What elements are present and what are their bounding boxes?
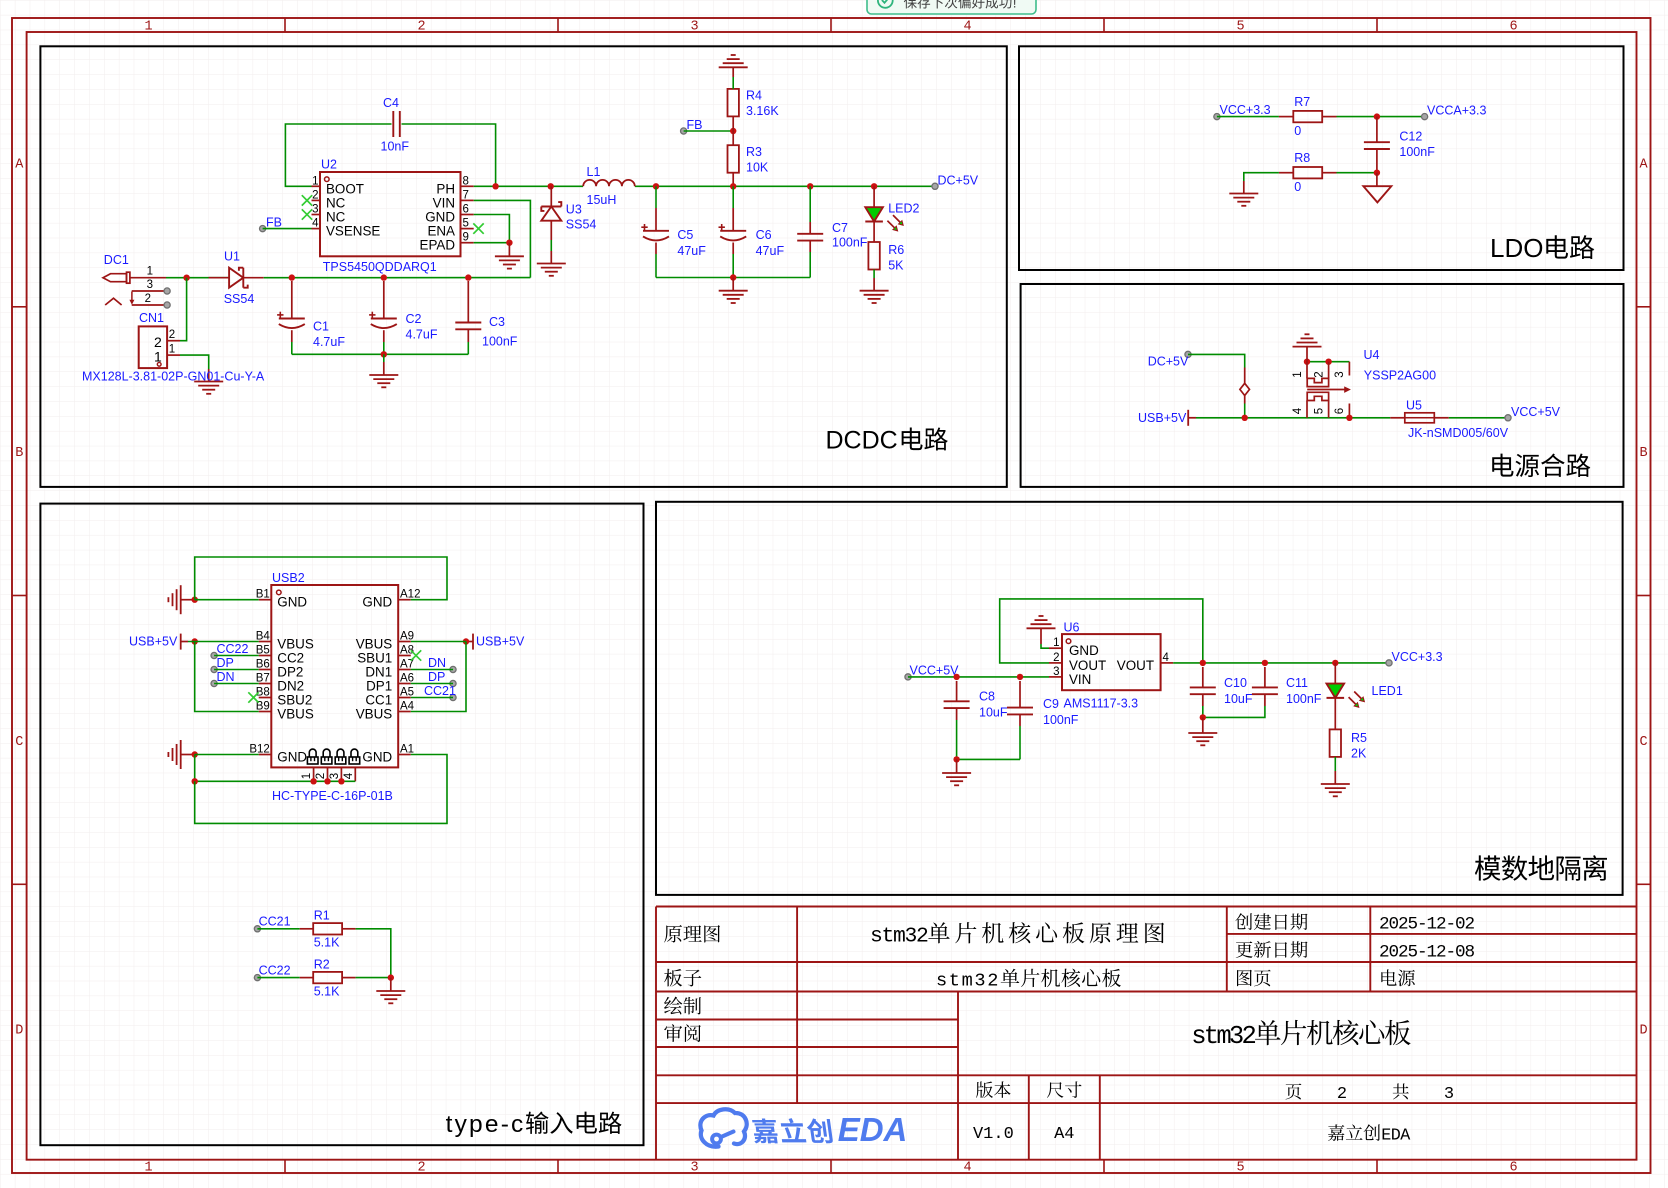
- resistor R4 3.16K: [728, 89, 739, 117]
- svg-text:2: 2: [916, 925, 929, 949]
- svg-text:!: !: [1013, 0, 1017, 10]
- svg-text:3: 3: [690, 20, 698, 35]
- node C8 gnd junction: [953, 756, 959, 762]
- svg-text:GND: GND: [277, 750, 307, 765]
- svg-text:3: 3: [1334, 371, 1346, 377]
- svg-text:2: 2: [1465, 915, 1476, 935]
- svg-text:C2: C2: [406, 312, 422, 326]
- node B12 junction: [192, 751, 198, 757]
- ground (U3): [537, 263, 566, 265]
- net label VCC+3.3: [1214, 114, 1220, 120]
- USB2 left pins: [259, 599, 272, 601]
- svg-text:5: 5: [463, 218, 469, 230]
- svg-text:R7: R7: [1294, 95, 1310, 109]
- capacitor C1 4.7uF: [291, 281, 293, 319]
- svg-text:C1: C1: [313, 320, 329, 334]
- svg-text:D: D: [1639, 1024, 1647, 1039]
- U2 TPS5450 box: [320, 172, 461, 256]
- wire GND pin: [474, 215, 510, 243]
- svg-text:DC+5V: DC+5V: [938, 174, 979, 188]
- capacitor C9 100nF: [1019, 681, 1021, 708]
- capacitor C4: [392, 111, 394, 137]
- node U4 pin2: [1325, 359, 1331, 365]
- svg-text:2: 2: [145, 293, 151, 305]
- svg-text:A: A: [15, 158, 24, 173]
- svg-text:1: 1: [1053, 637, 1059, 649]
- svg-text:5: 5: [1236, 1161, 1244, 1176]
- node C6/R3 junction: [730, 183, 736, 189]
- svg-text:100nF: 100nF: [482, 334, 518, 348]
- analog-gnd section box: [656, 502, 1623, 895]
- svg-text:VOUT: VOUT: [1069, 658, 1106, 673]
- node LED2 junction: [871, 183, 877, 189]
- net label VCC+5V (merge): [1505, 415, 1511, 421]
- diode U3 SS54: [550, 186, 552, 206]
- svg-text:SBU1: SBU1: [357, 651, 392, 666]
- svg-text:HC-TYPE-C-16P-01B: HC-TYPE-C-16P-01B: [272, 789, 393, 803]
- ground (R8): [1229, 193, 1258, 195]
- svg-text:8: 8: [463, 175, 469, 187]
- svg-text:2: 2: [1337, 1085, 1347, 1104]
- shield wire: [195, 780, 356, 782]
- svg-text:t: t: [949, 971, 960, 992]
- svg-text:6: 6: [1509, 1161, 1517, 1176]
- node C8 junction: [953, 674, 959, 680]
- node: C4->rail junction: [492, 183, 498, 189]
- LED2: [873, 186, 875, 207]
- svg-text:GND: GND: [362, 595, 392, 610]
- svg-text:0: 0: [1294, 124, 1301, 138]
- svg-text:C9: C9: [1043, 697, 1059, 711]
- svg-text:LDO: LDO: [1490, 233, 1543, 263]
- svg-text:5: 5: [1313, 408, 1325, 414]
- resistor R8 0: [1293, 167, 1322, 178]
- svg-text:VIN: VIN: [433, 195, 455, 210]
- svg-text:10K: 10K: [746, 161, 769, 175]
- svg-text:5.1K: 5.1K: [314, 984, 340, 998]
- net label DN (right): [450, 666, 456, 672]
- svg-text:s: s: [936, 971, 947, 992]
- svg-text:R8: R8: [1294, 151, 1310, 165]
- svg-text:R1: R1: [314, 909, 330, 923]
- svg-text:1: 1: [144, 20, 152, 35]
- svg-text:VIN: VIN: [1069, 672, 1091, 687]
- ground (C1-C3): [369, 374, 398, 376]
- svg-text:10nF: 10nF: [381, 140, 410, 154]
- svg-text:PH: PH: [436, 181, 455, 196]
- svg-text:2: 2: [987, 971, 998, 992]
- svg-text:E: E: [1381, 1127, 1391, 1146]
- capacitor C7 100nF: [809, 186, 811, 222]
- svg-text:2: 2: [417, 1161, 425, 1176]
- svg-text:D: D: [15, 1024, 23, 1039]
- node LED1 junction: [1332, 660, 1338, 666]
- svg-text:C4: C4: [383, 96, 399, 110]
- svg-text:4: 4: [1163, 652, 1170, 664]
- capacitor C12 100nF: [1376, 117, 1378, 143]
- resistor R2 5.1K: [300, 977, 314, 979]
- capacitor C6 47uF: [732, 186, 734, 208]
- node CN1 junction: [183, 275, 189, 281]
- caps C1-C3 bottom rail: [292, 353, 469, 355]
- svg-text:A: A: [1639, 158, 1648, 173]
- left VBUS loop to B9: [195, 642, 259, 712]
- node shield3: [338, 778, 344, 784]
- svg-text:3: 3: [147, 279, 153, 291]
- svg-text:R5: R5: [1351, 731, 1367, 745]
- svg-text:GND: GND: [425, 210, 455, 225]
- svg-text:L1: L1: [587, 165, 601, 179]
- node R8/C12 junction: [1374, 170, 1380, 176]
- svg-text:VSENSE: VSENSE: [326, 224, 380, 239]
- node: U3 junction: [548, 183, 554, 189]
- svg-text:0: 0: [1294, 180, 1301, 194]
- svg-text:DP: DP: [217, 656, 234, 670]
- svg-text:FB: FB: [687, 118, 703, 132]
- JLCEDA logo: [700, 1109, 746, 1146]
- svg-text:DCDC: DCDC: [826, 427, 898, 455]
- no-connect X pins 2,3,5: [302, 195, 312, 205]
- net label DP (left): [211, 666, 217, 672]
- DC1 pin2 + switch: [132, 304, 166, 306]
- capacitor C5 47uF: [655, 186, 657, 208]
- svg-text:4: 4: [1292, 407, 1304, 414]
- svg-text:47uF: 47uF: [677, 244, 706, 258]
- svg-text:B: B: [1639, 446, 1647, 461]
- svg-text:7: 7: [463, 189, 469, 201]
- U6 VOUT loop pin2: [1000, 599, 1203, 663]
- ground (CN1): [194, 381, 223, 383]
- svg-text:EDA: EDA: [838, 1111, 908, 1148]
- svg-text:USB+5V: USB+5V: [1138, 411, 1187, 425]
- node C7 junction: [807, 183, 813, 189]
- svg-text:U2: U2: [321, 158, 337, 172]
- svg-text:100nF: 100nF: [1399, 145, 1435, 159]
- top loop wire to A12: [195, 557, 447, 600]
- ground (R6): [860, 290, 889, 292]
- svg-text:CC22: CC22: [217, 642, 249, 656]
- VCC+3.3 output rail: [1173, 662, 1389, 664]
- capacitor C2 4.7uF: [383, 281, 385, 319]
- svg-text:2: 2: [1313, 371, 1325, 377]
- net label CC22 (left): [211, 652, 217, 658]
- svg-text:1: 1: [144, 1161, 152, 1176]
- svg-text:8: 8: [1465, 942, 1476, 962]
- svg-text:1: 1: [1292, 371, 1304, 377]
- net label CC21 (right): [450, 694, 456, 700]
- svg-text:C7: C7: [832, 221, 848, 235]
- svg-text:R2: R2: [314, 957, 330, 971]
- svg-text:5: 5: [1236, 20, 1244, 35]
- power-merge section box: [1021, 284, 1624, 487]
- wire EPAD pin: [474, 242, 510, 244]
- inductor L1 15uH: [583, 180, 635, 186]
- svg-text:type-c: type-c: [446, 1111, 526, 1138]
- right VBUS loop to A4: [411, 642, 466, 712]
- input rail: [166, 277, 229, 279]
- svg-text:MX128L-3.81-02P-GN01-Cu-Y-A: MX128L-3.81-02P-GN01-Cu-Y-A: [82, 370, 265, 384]
- node A9 junction: [463, 638, 469, 644]
- svg-text:4: 4: [312, 218, 319, 230]
- node C10 gnd junction: [1200, 714, 1206, 720]
- svg-text:AMS1117-3.3: AMS1117-3.3: [1064, 697, 1139, 711]
- svg-text:100nF: 100nF: [832, 235, 868, 249]
- toast notification: [867, 0, 1036, 14]
- svg-text:VBUS: VBUS: [277, 707, 314, 722]
- svg-text:YSSP2AG00: YSSP2AG00: [1364, 369, 1436, 383]
- DC1 pin3: [132, 290, 166, 292]
- svg-text:3: 3: [312, 204, 318, 216]
- svg-text:3: 3: [1053, 666, 1059, 678]
- DCDC section box: [40, 46, 1006, 487]
- caps bottom rail: [656, 277, 810, 279]
- svg-text:CC21: CC21: [424, 684, 456, 698]
- svg-text:3: 3: [1444, 1085, 1454, 1104]
- svg-text:LED2: LED2: [888, 202, 919, 216]
- svg-text:A4: A4: [1054, 1125, 1074, 1144]
- svg-text:C5: C5: [677, 228, 693, 242]
- node shield2: [324, 778, 330, 784]
- svg-text:100nF: 100nF: [1286, 692, 1322, 706]
- ground (R1/R2): [376, 990, 405, 992]
- net label DP (right): [450, 680, 456, 686]
- ground (B1): [180, 585, 182, 614]
- svg-text:6: 6: [463, 204, 469, 216]
- svg-text:2: 2: [315, 773, 327, 779]
- net label VCC+3.3 (out): [1386, 660, 1392, 666]
- shield pins stubs: [313, 767, 315, 781]
- resistor R1 5.1K: [300, 928, 314, 930]
- section title 模数地隔离: [1475, 855, 1501, 880]
- svg-text:1: 1: [301, 773, 313, 779]
- svg-text:VCC+3.3: VCC+3.3: [1392, 650, 1443, 664]
- U6 AMS1117-3.3: [1062, 634, 1161, 690]
- capacitor C8 10uF: [956, 681, 958, 701]
- svg-text:4: 4: [963, 20, 971, 35]
- svg-text:SS54: SS54: [224, 292, 255, 306]
- node caps gnd junction: [730, 274, 736, 280]
- svg-text:100nF: 100nF: [1043, 713, 1079, 727]
- svg-text:EPAD: EPAD: [420, 238, 456, 253]
- capacitor C3 100nF: [467, 281, 469, 323]
- svg-text:2K: 2K: [1351, 747, 1367, 761]
- net label VCCA+3.3: [1422, 114, 1428, 120]
- node C12 junction: [1374, 113, 1380, 119]
- U2 pins right: [461, 185, 474, 187]
- node C3 junction: [465, 274, 471, 280]
- svg-text:10uF: 10uF: [1224, 692, 1253, 706]
- ground above R4: [719, 66, 748, 68]
- svg-text:DC+5V: DC+5V: [1148, 355, 1189, 369]
- node shield1: [310, 778, 316, 784]
- svg-text:ENA: ENA: [427, 224, 455, 239]
- section title 电源合路: [1492, 454, 1513, 477]
- svg-text:USB2: USB2: [272, 571, 305, 585]
- svg-text:NC: NC: [326, 210, 346, 225]
- node merge junction: [1242, 415, 1248, 421]
- node C2 junction: [381, 274, 387, 280]
- svg-text:VBUS: VBUS: [356, 707, 393, 722]
- svg-text:3: 3: [974, 971, 985, 992]
- wire VIN: [474, 200, 531, 277]
- svg-text:GND: GND: [277, 595, 307, 610]
- svg-text:m: m: [962, 971, 973, 992]
- svg-text:U1: U1: [224, 250, 240, 264]
- node C1-C3 gnd junction: [381, 351, 387, 357]
- title block texts: [664, 925, 682, 943]
- no-connect B8/A8: [248, 692, 258, 702]
- svg-text:U3: U3: [566, 203, 582, 217]
- svg-text:B: B: [15, 446, 23, 461]
- node C11 junction: [1262, 660, 1268, 666]
- svg-text:U4: U4: [1364, 348, 1380, 362]
- node B4 junction: [192, 638, 198, 644]
- resistor R5 2K: [1330, 729, 1341, 757]
- svg-text:JK-nSMD005/60V: JK-nSMD005/60V: [1408, 426, 1509, 440]
- svg-text:1: 1: [169, 343, 175, 355]
- svg-text:SS54: SS54: [566, 217, 597, 231]
- svg-text:V1.0: V1.0: [973, 1125, 1014, 1144]
- ground above U4: [1293, 346, 1322, 348]
- net label DC+5V: [932, 183, 938, 189]
- svg-text:9: 9: [463, 232, 469, 244]
- USB2 right pins: [398, 599, 411, 601]
- ground above U6 pin1: [1041, 644, 1049, 648]
- svg-text:GND: GND: [1069, 643, 1099, 658]
- svg-text:3: 3: [690, 1161, 698, 1176]
- U2 pins left: [312, 185, 321, 187]
- PH output rail: [474, 185, 583, 187]
- svg-text:DP2: DP2: [277, 665, 303, 680]
- net label DN (left): [211, 680, 217, 686]
- node U4 pin6 junction: [1346, 415, 1352, 421]
- svg-text:4.7uF: 4.7uF: [313, 335, 345, 349]
- svg-text:VBUS: VBUS: [277, 637, 314, 652]
- svg-text:USB+5V: USB+5V: [129, 635, 178, 649]
- svg-text:U5: U5: [1406, 398, 1422, 412]
- svg-text:CC2: CC2: [277, 651, 304, 666]
- svg-text:TPS5450QDDARQ1: TPS5450QDDARQ1: [323, 260, 437, 274]
- ground (EPAD): [495, 255, 524, 257]
- svg-text:C10: C10: [1224, 676, 1247, 690]
- ground (C10/C11): [1188, 732, 1217, 734]
- svg-text:DN1: DN1: [365, 665, 392, 680]
- resistor R3 10K: [728, 145, 739, 173]
- svg-text:R3: R3: [746, 145, 762, 159]
- svg-text:3: 3: [329, 773, 341, 779]
- FB net label (divider): [681, 128, 687, 134]
- svg-text:C: C: [15, 735, 23, 750]
- svg-text:LED1: LED1: [1372, 684, 1403, 698]
- svg-text:DN2: DN2: [277, 679, 304, 694]
- node EPAD/GND junction: [506, 240, 512, 246]
- svg-text:5K: 5K: [888, 259, 904, 273]
- node B1 junction: [192, 597, 198, 603]
- svg-text:C3: C3: [489, 315, 505, 329]
- svg-text:NC: NC: [326, 195, 346, 210]
- svg-text:SBU2: SBU2: [277, 693, 312, 708]
- svg-text:2: 2: [169, 329, 175, 341]
- svg-text:R4: R4: [746, 89, 762, 103]
- FB net label (U2): [260, 226, 266, 232]
- net label DC+5V (merge): [1185, 351, 1191, 357]
- LED1: [1334, 663, 1336, 684]
- svg-text:5.1K: 5.1K: [314, 936, 340, 950]
- svg-text:3.16K: 3.16K: [746, 104, 779, 118]
- svg-text:VCC+5V: VCC+5V: [1511, 405, 1561, 419]
- svg-text:C6: C6: [756, 228, 772, 242]
- svg-text:C11: C11: [1286, 676, 1308, 690]
- LDO section box: [1019, 46, 1624, 270]
- svg-text:VCCA+3.3: VCCA+3.3: [1427, 104, 1486, 118]
- svg-text:GND: GND: [362, 750, 392, 765]
- svg-text:2: 2: [417, 20, 425, 35]
- svg-text:6: 6: [1509, 20, 1517, 35]
- svg-text:VCC+5V: VCC+5V: [910, 663, 960, 677]
- USB2 connector box: [271, 585, 398, 767]
- C4 bootstrap loop wire: [285, 124, 391, 186]
- node C1 junction: [289, 274, 295, 280]
- node C5 junction: [653, 183, 659, 189]
- ground (C5-C7): [719, 290, 748, 292]
- capacitor C10 10uF: [1202, 667, 1204, 687]
- analog ground triangle (C12): [1376, 173, 1378, 187]
- node C9 junction: [1017, 674, 1023, 680]
- net label CC21 (R1): [254, 926, 260, 932]
- svg-text:DP: DP: [428, 670, 445, 684]
- svg-text:U6: U6: [1064, 621, 1080, 635]
- svg-text:DN: DN: [217, 670, 235, 684]
- svg-text:A: A: [1400, 1127, 1411, 1146]
- svg-text:R6: R6: [888, 243, 904, 257]
- svg-text:1: 1: [312, 175, 318, 187]
- svg-text:VBUS: VBUS: [356, 637, 393, 652]
- net label VCC+5V (U6): [905, 674, 911, 680]
- A1 loop wire: [195, 755, 447, 824]
- type-c section box: [40, 504, 643, 1146]
- node R1/R2 junction: [388, 974, 394, 980]
- ground (B12): [180, 740, 182, 769]
- ground (C8/C9): [942, 772, 971, 774]
- svg-text:4: 4: [963, 1161, 971, 1176]
- C8/C9 bottom wire: [957, 758, 1020, 760]
- svg-text:4.7uF: 4.7uF: [406, 328, 438, 342]
- svg-text:1: 1: [147, 266, 153, 278]
- diamond net flag: [1244, 368, 1246, 384]
- svg-text:CN1: CN1: [139, 311, 164, 325]
- svg-text:USB+5V: USB+5V: [476, 635, 525, 649]
- svg-text:CC22: CC22: [259, 963, 291, 977]
- net label CC22 (R2): [254, 975, 260, 981]
- svg-text:BOOT: BOOT: [326, 181, 364, 196]
- svg-text:47uF: 47uF: [756, 244, 785, 258]
- node FB junction: [730, 128, 736, 134]
- svg-text:CC1: CC1: [365, 693, 392, 708]
- title block grid: [656, 906, 1637, 908]
- svg-text:6: 6: [1334, 408, 1346, 414]
- resistor R7 0: [1279, 116, 1293, 118]
- svg-text:DN: DN: [428, 656, 446, 670]
- node C10 junction: [1200, 660, 1206, 666]
- svg-text:2: 2: [312, 189, 318, 201]
- svg-text:DC1: DC1: [104, 253, 129, 267]
- node shield-left junction: [192, 778, 198, 784]
- svg-text:VOUT: VOUT: [1117, 658, 1154, 673]
- svg-text:2: 2: [1053, 652, 1059, 664]
- svg-text:2: 2: [1242, 1022, 1257, 1051]
- resistor R6 5K: [868, 242, 879, 270]
- svg-text:C12: C12: [1399, 129, 1422, 143]
